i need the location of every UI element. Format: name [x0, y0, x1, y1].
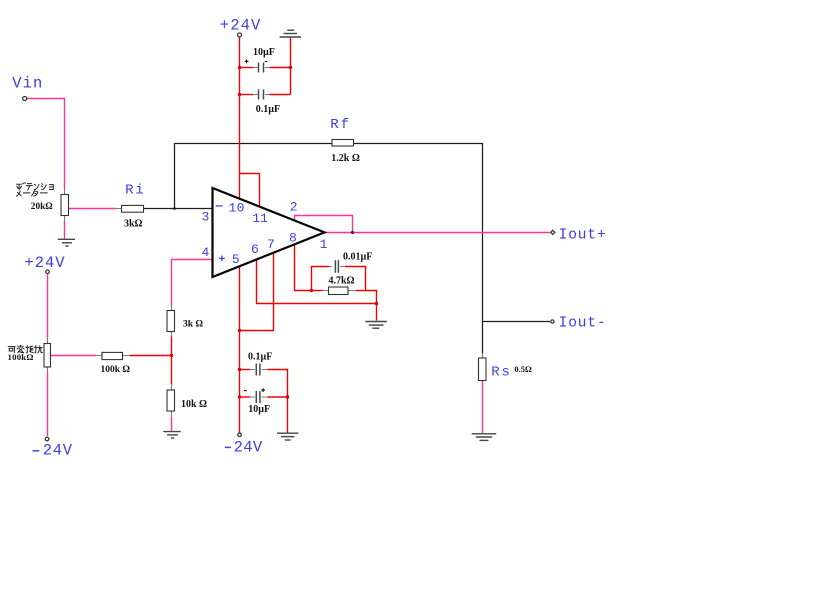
svg-text:Rf: Rf: [330, 117, 351, 133]
svg-text:0.1µF: 0.1µF: [248, 351, 272, 362]
svg-text:4.7kΩ: 4.7kΩ: [329, 275, 355, 286]
svg-text:0.5Ω: 0.5Ω: [514, 364, 532, 374]
svg-text:10µF: 10µF: [248, 404, 270, 415]
svg-text:+24V: +24V: [24, 254, 65, 272]
svg-text:24V: 24V: [234, 438, 263, 456]
svg-text:2: 2: [290, 200, 298, 215]
svg-text:5: 5: [232, 252, 240, 267]
svg-text:24V: 24V: [43, 441, 73, 459]
svg-text:11: 11: [252, 211, 268, 226]
svg-text:4: 4: [202, 245, 210, 260]
svg-text:1.2k Ω: 1.2k Ω: [331, 153, 360, 164]
svg-text:+24V: +24V: [220, 16, 262, 34]
svg-text:Vin: Vin: [12, 75, 43, 93]
svg-text:0.01µF: 0.01µF: [343, 252, 372, 263]
svg-text:10: 10: [229, 201, 245, 216]
svg-text:10µF: 10µF: [253, 47, 275, 58]
svg-text:3k Ω: 3k Ω: [183, 320, 203, 330]
svg-text:Ri: Ri: [125, 182, 145, 198]
svg-text:8: 8: [289, 231, 297, 246]
svg-text:10k Ω: 10k Ω: [181, 399, 207, 410]
svg-text:100k Ω: 100k Ω: [101, 365, 131, 375]
svg-text:100kΩ: 100kΩ: [8, 352, 34, 362]
svg-text:Iout+: Iout+: [559, 227, 607, 243]
svg-text:7: 7: [267, 237, 275, 252]
svg-text:Rs: Rs: [491, 364, 511, 380]
svg-text:Iout-: Iout-: [559, 315, 607, 331]
svg-text:1: 1: [320, 237, 328, 252]
svg-text:3kΩ: 3kΩ: [124, 218, 143, 229]
svg-text:20kΩ: 20kΩ: [31, 202, 53, 212]
svg-text:6: 6: [251, 242, 259, 257]
svg-text:0.1µF: 0.1µF: [256, 104, 280, 115]
svg-text:3: 3: [202, 210, 210, 225]
